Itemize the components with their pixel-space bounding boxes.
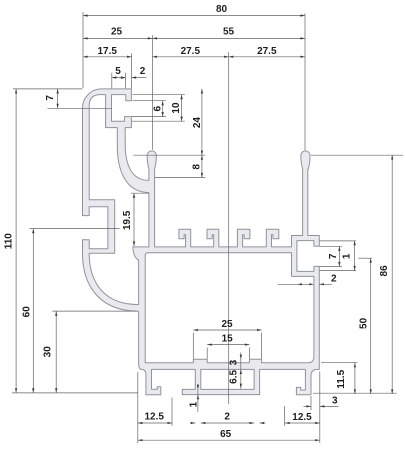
svg-text:1: 1 <box>189 401 200 407</box>
svg-text:7: 7 <box>328 253 339 259</box>
svg-text:15: 15 <box>222 334 234 345</box>
svg-text:110: 110 <box>4 233 15 250</box>
svg-text:24: 24 <box>192 117 203 129</box>
svg-text:55: 55 <box>223 26 235 37</box>
svg-text:5: 5 <box>115 66 121 77</box>
svg-text:12.5: 12.5 <box>144 412 164 423</box>
svg-text:86: 86 <box>379 265 390 277</box>
svg-text:2: 2 <box>140 66 146 77</box>
svg-text:1: 1 <box>342 253 353 259</box>
svg-text:6: 6 <box>152 105 163 111</box>
svg-text:7: 7 <box>45 95 56 101</box>
svg-text:2: 2 <box>224 412 230 423</box>
svg-text:3: 3 <box>332 396 338 407</box>
svg-text:27.5: 27.5 <box>181 46 201 57</box>
svg-text:3: 3 <box>228 359 239 365</box>
svg-text:11.5: 11.5 <box>336 369 347 388</box>
svg-text:60: 60 <box>21 306 32 318</box>
svg-text:19.5: 19.5 <box>122 210 133 230</box>
svg-text:50: 50 <box>359 317 370 329</box>
svg-text:80: 80 <box>216 4 228 15</box>
svg-text:30: 30 <box>42 346 53 358</box>
svg-text:12.5: 12.5 <box>292 412 312 423</box>
svg-text:25: 25 <box>111 26 123 37</box>
svg-text:6.5: 6.5 <box>229 370 240 384</box>
svg-text:25: 25 <box>221 319 233 330</box>
svg-text:17.5: 17.5 <box>97 46 117 57</box>
svg-text:2: 2 <box>331 274 337 285</box>
svg-text:27.5: 27.5 <box>257 46 277 57</box>
svg-text:65: 65 <box>220 429 232 440</box>
svg-text:10: 10 <box>171 102 182 114</box>
svg-text:8: 8 <box>192 164 203 170</box>
